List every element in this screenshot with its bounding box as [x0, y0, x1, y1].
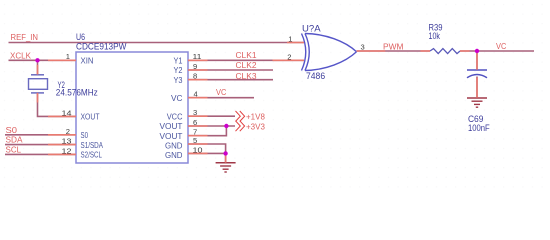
pin stubs (bright) U6 left pins 1,14,2,13,12 — [48, 60, 76, 154]
wire VOUT pin 6 to +3V3 — [188, 125, 235, 127]
wire junction down to C69 — [476, 51, 478, 70]
wire R39 to VC net — [460, 50, 534, 52]
svg-text:Y2: Y2 — [174, 66, 183, 75]
power symbol +3V3 — [236, 121, 266, 132]
wire REF_IN to U2A pin 1 — [9, 42, 305, 44]
junction R39/C69 — [475, 49, 479, 53]
pin stub ground under U6 — [225, 153, 227, 162]
svg-text:CLK1: CLK1 — [236, 50, 257, 60]
svg-text:S0: S0 — [81, 131, 89, 140]
resistor R39 10k — [429, 23, 461, 54]
svg-text:GND: GND — [165, 151, 183, 160]
wire GND pin 5 — [188, 144, 226, 153]
wire Y2 stub (net CLK2) — [188, 69, 273, 71]
svg-text:XCLK: XCLK — [10, 51, 31, 61]
svg-text:CLK3: CLK3 — [236, 71, 257, 81]
wire C69 to ground — [476, 77, 478, 98]
wire crystal to XOUT pin 14 — [38, 93, 77, 117]
wire U2A output to R39 (net PWM) — [357, 50, 431, 52]
wire SDA to pin 13 — [5, 144, 76, 146]
pin stub U2A pin 3 output — [357, 50, 386, 52]
svg-text:XOUT: XOUT — [81, 113, 100, 122]
svg-text:REF_IN: REF_IN — [11, 32, 39, 42]
svg-text:PWM: PWM — [383, 41, 403, 51]
svg-text:+1V8: +1V8 — [246, 112, 265, 122]
svg-text:7486: 7486 — [306, 71, 325, 81]
svg-text:VC: VC — [216, 87, 226, 97]
wire junction down to crystal — [37, 60, 39, 74]
value label C69 100nF — [468, 114, 490, 133]
ground C69 — [467, 98, 487, 107]
svg-text:VCC: VCC — [167, 112, 183, 121]
pin stubs resistor R39 — [420, 50, 469, 52]
svg-text:SCL: SCL — [6, 145, 22, 155]
svg-text:CLK2: CLK2 — [236, 60, 257, 70]
wire VCC pin 3 to +1V8 — [188, 115, 235, 117]
wire S0 to pin 2 — [5, 134, 76, 136]
wire GND pin 10 — [188, 153, 226, 162]
value label Y2 24.576MHz — [56, 80, 98, 98]
svg-text:CDCE913PW: CDCE913PW — [76, 41, 127, 51]
wire VC pin 4 stub — [188, 97, 254, 99]
svg-text:SDA: SDA — [6, 135, 23, 145]
svg-text:10k: 10k — [429, 31, 441, 41]
wire SCL to pin 12 — [5, 153, 76, 155]
power symbol +1V8 — [236, 111, 266, 122]
svg-text:VC: VC — [496, 41, 506, 51]
capacitor C69 — [467, 70, 487, 78]
svg-text:VOUT: VOUT — [160, 132, 183, 141]
wire Y1 to U2A pin 2 (net CLK1) — [188, 59, 304, 61]
pin stub U2A pin 1 — [287, 42, 304, 44]
svg-text:Y3: Y3 — [174, 76, 183, 85]
wire VOUT pin 7 up to pin 6 net — [188, 126, 226, 136]
pin stubs capacitor C69 — [476, 52, 478, 98]
svg-text:GND: GND — [165, 142, 183, 151]
svg-text:Y1: Y1 — [174, 57, 183, 66]
pin stubs crystal Y2 — [37, 65, 39, 103]
svg-text:S1/SDA: S1/SDA — [81, 141, 104, 150]
IC U6 CDCE913PW — [76, 32, 188, 163]
junction pin5/pin10 — [223, 151, 227, 155]
pin stub U2A pin 2 — [273, 59, 305, 61]
svg-text:+3V3: +3V3 — [246, 121, 265, 131]
svg-text:VOUT: VOUT — [160, 122, 183, 131]
junction pin6/pin7 — [224, 124, 228, 128]
junction XCLK/crystal — [35, 58, 39, 62]
svg-text:XIN: XIN — [81, 57, 94, 66]
svg-text:100nF: 100nF — [468, 123, 490, 133]
crystal Y2 — [29, 75, 48, 93]
svg-text:24.576MHz: 24.576MHz — [56, 88, 98, 98]
wire XCLK to XIN pin 1 — [9, 59, 77, 61]
svg-text:VC: VC — [171, 94, 183, 103]
svg-text:U?A: U?A — [302, 24, 321, 34]
XOR gate U?A 7486 — [302, 24, 357, 82]
svg-text:S2/SCL: S2/SCL — [81, 151, 103, 160]
svg-text:S0: S0 — [6, 125, 18, 135]
wire Y3 stub (net CLK3) — [188, 79, 273, 81]
pin stubs (bright) U6 right pins 11,9,8,4,3,6,7,5,10 — [188, 60, 208, 153]
svg-text:3: 3 — [361, 42, 365, 51]
ground U6 GND — [216, 163, 236, 172]
